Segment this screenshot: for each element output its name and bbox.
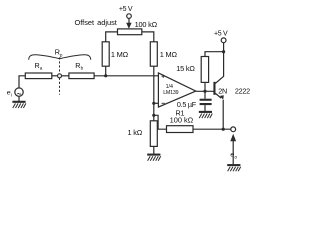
wire: node to Rb (62, 75, 69, 77)
svg-text:i: i (11, 92, 13, 97)
wiper node circle (58, 74, 62, 78)
arrow eo up (230, 134, 236, 165)
label Ra (35, 61, 43, 71)
capacitor 0.5uF (200, 99, 212, 105)
label +5V top (119, 6, 133, 13)
label 2N 2222 (218, 86, 250, 95)
svg-text:0.5 µF: 0.5 µF (177, 100, 197, 109)
resistor 1M right (150, 42, 157, 66)
terminal +5V right (221, 38, 226, 43)
label 1/4 LM139 (163, 84, 178, 96)
svg-text:1 MΩ: 1 MΩ (160, 50, 178, 59)
wire: 15k top to +5V dot (205, 52, 224, 57)
svg-text:15 kΩ: 15 kΩ (176, 64, 195, 73)
junction dot minus (152, 102, 155, 105)
resistor 1k (150, 121, 157, 147)
wire: 1M left bottom lead (105, 66, 107, 76)
wire: junction down to cap (204, 91, 206, 99)
svg-text:100 kΩ: 100 kΩ (170, 115, 194, 124)
svg-text:a: a (40, 66, 43, 71)
label ei (7, 89, 13, 97)
resistor Rb (69, 73, 94, 79)
op-amp U1 LM139 (158, 73, 195, 107)
junction dot output (203, 90, 206, 93)
svg-text:Offset adjust: Offset adjust (75, 18, 117, 27)
junction dot R1 branch (152, 114, 155, 117)
wire: comparator output to junction (196, 90, 214, 92)
svg-text:2222: 2222 (235, 86, 250, 95)
label 1 Mohm left (111, 50, 129, 59)
wire: Ra to wiper node (52, 75, 58, 77)
label 1 kohm (128, 128, 143, 137)
label Rp (55, 48, 63, 58)
potentiometer body 100k (118, 29, 142, 35)
resistor R1 (167, 126, 194, 133)
junction dot node A (104, 74, 107, 77)
terminal +5V top (127, 14, 132, 19)
label Rb (75, 61, 83, 71)
junction dot eo (222, 128, 225, 131)
ground under 1k (147, 155, 161, 161)
wire: 1k to ground (153, 146, 155, 154)
wire: terminal to dot (223, 43, 225, 52)
wire: 15k bottom lead (204, 82, 206, 91)
label +5V right (214, 31, 228, 38)
wire: ei to ground (18, 96, 20, 101)
label Offset adjust (75, 18, 117, 27)
svg-text:b: b (81, 66, 84, 71)
wire: 1M left top to pot left (106, 32, 118, 42)
wire: cap to ground (204, 105, 206, 111)
dashed wiper line (59, 57, 61, 94)
ground under cap (199, 112, 213, 118)
arrowhead onto pot (126, 23, 131, 29)
ground under ei (12, 102, 26, 108)
resistor Ra (25, 73, 52, 79)
wire: ei source to Ra (19, 76, 25, 88)
wire: +5V arrow to pot (128, 18, 130, 23)
svg-text:p: p (60, 52, 63, 57)
transistor Q1 2N2222 (213, 52, 223, 130)
voltage source ei (15, 88, 23, 96)
wire: Rb to plus input (94, 75, 159, 77)
svg-text:2N: 2N (218, 86, 227, 95)
plus sign (162, 75, 165, 78)
label 0.5 uF (177, 100, 197, 109)
ground under eo (227, 165, 241, 171)
brace over Ra Rb (29, 55, 91, 60)
resistor 1M left (102, 42, 109, 66)
junction dot +5V right (222, 50, 225, 53)
terminal eo (231, 127, 236, 132)
wire: 1M right bottom long vertical (153, 66, 155, 121)
svg-text:LM139: LM139 (163, 90, 178, 96)
wire: pot right to 1M right (142, 32, 154, 42)
label 15 kohm (176, 64, 195, 73)
label 1 Mohm right (160, 50, 178, 59)
label eo (230, 151, 237, 159)
svg-text:1 MΩ: 1 MΩ (111, 50, 129, 59)
minus sign (162, 102, 165, 104)
wire: minus input (154, 102, 159, 104)
svg-text:1 kΩ: 1 kΩ (128, 128, 143, 137)
resistor 15k (201, 57, 208, 83)
label 100 kohm pot (135, 20, 158, 29)
svg-text:100 kΩ: 100 kΩ (135, 20, 158, 29)
svg-text:+5 V: +5 V (214, 31, 228, 38)
wire: R1 branch L-shape (154, 115, 167, 129)
wire: R1 to output node (193, 128, 231, 130)
svg-text:o: o (235, 154, 238, 159)
svg-text:+5 V: +5 V (119, 6, 133, 13)
label R1 (170, 109, 194, 125)
